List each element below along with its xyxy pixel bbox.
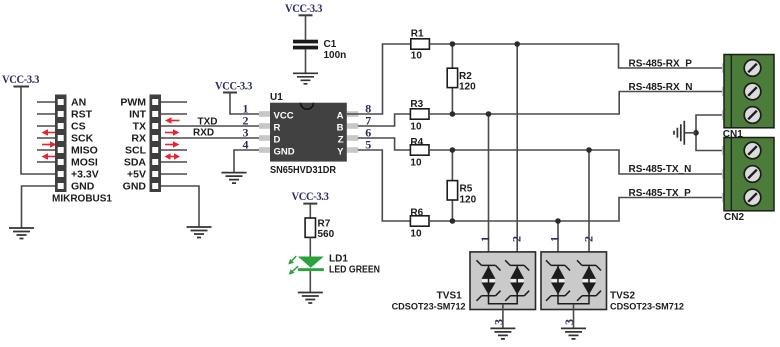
svg-text:RS-485-RX_N: RS-485-RX_N (629, 82, 693, 93)
node junction R1/TVS1 pin2 (514, 41, 520, 47)
wire TVS2 pin1 column (557, 221, 559, 265)
wire AN stub (37, 101, 55, 103)
ground (below TVS2) (561, 328, 586, 339)
svg-text:CN2: CN2 (724, 212, 744, 223)
connector CN1 (722, 55, 774, 128)
svg-text:1: 1 (478, 236, 492, 242)
arrow SCK (red, right) (42, 141, 57, 147)
TVS diode TVS1 CDSOT23-SM712 (470, 252, 536, 329)
capacitor C1 100n (293, 15, 318, 73)
ground (below LD1) (298, 293, 323, 304)
svg-text:R1: R1 (411, 29, 424, 40)
wire U1 pin7 (B) to R3 (358, 114, 411, 126)
svg-text:CDSOT23-SM712: CDSOT23-SM712 (610, 302, 684, 313)
svg-text:R2: R2 (459, 71, 472, 82)
svg-text:MISO: MISO (71, 145, 98, 157)
svg-text:Z: Z (338, 134, 344, 145)
wire PWM stub (161, 101, 187, 103)
svg-text:CDSOT23-SM712: CDSOT23-SM712 (392, 302, 466, 313)
svg-text:INT: INT (129, 109, 147, 121)
svg-text:C1: C1 (324, 39, 337, 50)
wire TVS1 pin2 column (516, 44, 518, 265)
svg-text:+3.3V: +3.3V (71, 169, 99, 181)
wire TX_N row (429, 150, 722, 174)
ground (below TVS1) (490, 328, 515, 339)
svg-text:SN65HVD31DR: SN65HVD31DR (270, 165, 336, 176)
resistor R7 560 (305, 218, 315, 237)
wire +5V stub (161, 173, 187, 175)
wire R7 to LD1 (309, 237, 311, 256)
power symbol VCC-3.3 (top-left) (2, 72, 39, 87)
svg-text:10: 10 (410, 121, 422, 132)
svg-text:RS-485-RX_P: RS-485-RX_P (629, 58, 693, 69)
wire CN1 pin3 to CN2 pin1 (earth tie) (696, 115, 722, 151)
wire RST stub (37, 113, 55, 115)
wire RX_N row (429, 92, 722, 115)
svg-text:120: 120 (460, 194, 477, 205)
arrow MISO (red, left) (42, 153, 57, 159)
node junction R3/TVS1 pin1 (486, 111, 492, 117)
svg-text:RXD: RXD (193, 128, 214, 139)
svg-text:+5V: +5V (127, 169, 146, 181)
svg-text:4: 4 (243, 137, 249, 151)
svg-text:CS: CS (71, 121, 86, 133)
svg-text:LED GREEN: LED GREEN (329, 265, 380, 276)
wire SDA stub (161, 161, 187, 163)
resistor R3 10 (410, 109, 429, 119)
svg-text:TVS2: TVS2 (610, 291, 635, 302)
wire RX_P row (429, 44, 722, 68)
arrow SDA (red, double) (165, 153, 181, 159)
svg-text:R6: R6 (410, 208, 423, 219)
wire GND of right header to ground (161, 186, 199, 227)
svg-text:R4: R4 (410, 137, 423, 148)
wire TVS2 pin2 column (588, 150, 590, 265)
arrow INT (red, left) (165, 117, 180, 123)
svg-text:R3: R3 (410, 99, 423, 110)
svg-text:D: D (274, 134, 281, 145)
wire TXD net (TX to U1 pin2) (161, 125, 262, 127)
svg-text:B: B (337, 122, 344, 133)
pin labels MIKROBUS1 left (52, 97, 112, 205)
svg-text:GND: GND (123, 181, 147, 193)
wire SCL stub (161, 149, 187, 151)
svg-text:120: 120 (459, 81, 476, 92)
wire U1 pin8 (A) up to R1 row (347, 44, 411, 114)
op-amp U1 SN65HVD31DR transceiver (259, 103, 358, 162)
wire U1 pin4 to ground (234, 150, 262, 173)
svg-text:10: 10 (410, 158, 422, 169)
resistor R4 10 (410, 145, 429, 155)
node junction R1/R2 (450, 41, 456, 47)
svg-text:560: 560 (318, 229, 335, 240)
wire TX_P row (429, 198, 722, 222)
svg-text:RX: RX (131, 133, 146, 145)
svg-text:3: 3 (562, 319, 576, 325)
wire SCK stub (37, 137, 55, 139)
svg-text:SCK: SCK (71, 133, 94, 145)
svg-text:PWM: PWM (120, 97, 146, 109)
wire CS stub (37, 125, 55, 127)
arrow TX (red, right) (165, 129, 180, 135)
svg-text:VCC-3.3: VCC-3.3 (215, 79, 252, 93)
ground (below MIKROBUS1) (9, 228, 34, 239)
connector MIKROBUS1 right header (150, 95, 162, 193)
svg-text:GND: GND (274, 146, 295, 157)
svg-text:SDA: SDA (124, 157, 147, 169)
wire TVS1 pin1 column (488, 114, 490, 265)
ground (U1 pin4) (222, 173, 247, 184)
power symbol VCC-3.3 (above C1) (285, 1, 322, 16)
ground (below C1) (293, 73, 318, 84)
wire VCC-3.3 to +3.3V pin of MIKROBUS1 (21, 87, 55, 175)
LED LD1 green (288, 256, 324, 275)
node junction R6/TVS2 pin1 (555, 218, 561, 224)
svg-text:VCC-3.3: VCC-3.3 (292, 189, 329, 203)
svg-text:U1: U1 (270, 92, 283, 103)
wire U1 pin5 (Y) down to R6 row (358, 150, 411, 221)
svg-text:AN: AN (71, 97, 86, 109)
svg-text:MOSI: MOSI (71, 157, 98, 169)
wire VCC to R7 (309, 204, 311, 218)
node junction R4/R5 (450, 147, 456, 153)
pin labels MIKROBUS1 right (120, 97, 146, 193)
wire MOSI stub (37, 161, 55, 163)
svg-text:2: 2 (510, 236, 524, 242)
resistor R2 120 (447, 44, 457, 114)
arrow RX (red, right) (165, 141, 180, 147)
svg-text:10: 10 (410, 229, 422, 240)
power symbol VCC-3.3 (above U1 pin1) (215, 79, 252, 93)
ground (below right header) (187, 227, 212, 238)
svg-text:SCL: SCL (125, 145, 147, 157)
wire GND of MIKROBUS1 to ground (22, 186, 56, 228)
svg-text:RS-485-TX_P: RS-485-TX_P (629, 188, 692, 199)
wire RXD net (RX to U1 pin3) (161, 137, 262, 139)
wire LD1 to ground (309, 271, 311, 292)
wire INT stub (161, 113, 187, 115)
svg-text:R7: R7 (318, 219, 331, 230)
svg-text:A: A (337, 110, 344, 121)
arrow CS (red, left) (42, 129, 57, 135)
resistor R5 120 (447, 150, 457, 221)
svg-text:VCC-3.3: VCC-3.3 (2, 72, 39, 86)
svg-text:VCC-3.3: VCC-3.3 (285, 1, 322, 15)
svg-text:TX: TX (133, 121, 146, 133)
svg-text:RS-485-TX_N: RS-485-TX_N (629, 164, 692, 175)
svg-text:TXD: TXD (198, 117, 218, 128)
svg-text:VCC: VCC (274, 110, 294, 121)
svg-text:MIKROBUS1: MIKROBUS1 (52, 193, 112, 205)
svg-text:2: 2 (582, 236, 596, 242)
svg-text:100n: 100n (324, 50, 347, 61)
node junction R4/TVS2 pin2 (586, 147, 592, 153)
svg-text:LD1: LD1 (329, 253, 348, 264)
svg-text:R5: R5 (460, 183, 473, 194)
wire VCC-3.3 to U1 pin1 (230, 93, 262, 115)
svg-text:GND: GND (71, 181, 95, 193)
node junction R6/R5 (450, 218, 456, 224)
svg-text:TVS1: TVS1 (437, 291, 462, 302)
node junction R3/R2 (450, 111, 456, 117)
svg-text:Y: Y (337, 146, 344, 157)
power symbol VCC-3.3 (above R7) (292, 189, 329, 204)
connector MIKROBUS1 left header (55, 95, 67, 193)
wire MISO stub (37, 149, 55, 151)
resistor R6 10 (410, 216, 429, 226)
svg-text:10: 10 (411, 51, 423, 62)
TVS diode TVS2 CDSOT23-SM712 (541, 252, 607, 329)
svg-text:3: 3 (492, 319, 506, 325)
resistor R1 10 (411, 39, 430, 49)
connector CN2 (722, 138, 774, 211)
wire U1 pin6 (Z) to R4 (358, 138, 411, 150)
svg-text:1: 1 (548, 236, 562, 242)
node junction earth (693, 130, 699, 136)
earth ground symbol (674, 121, 696, 145)
svg-text:RST: RST (71, 109, 93, 121)
svg-text:R: R (274, 122, 281, 133)
